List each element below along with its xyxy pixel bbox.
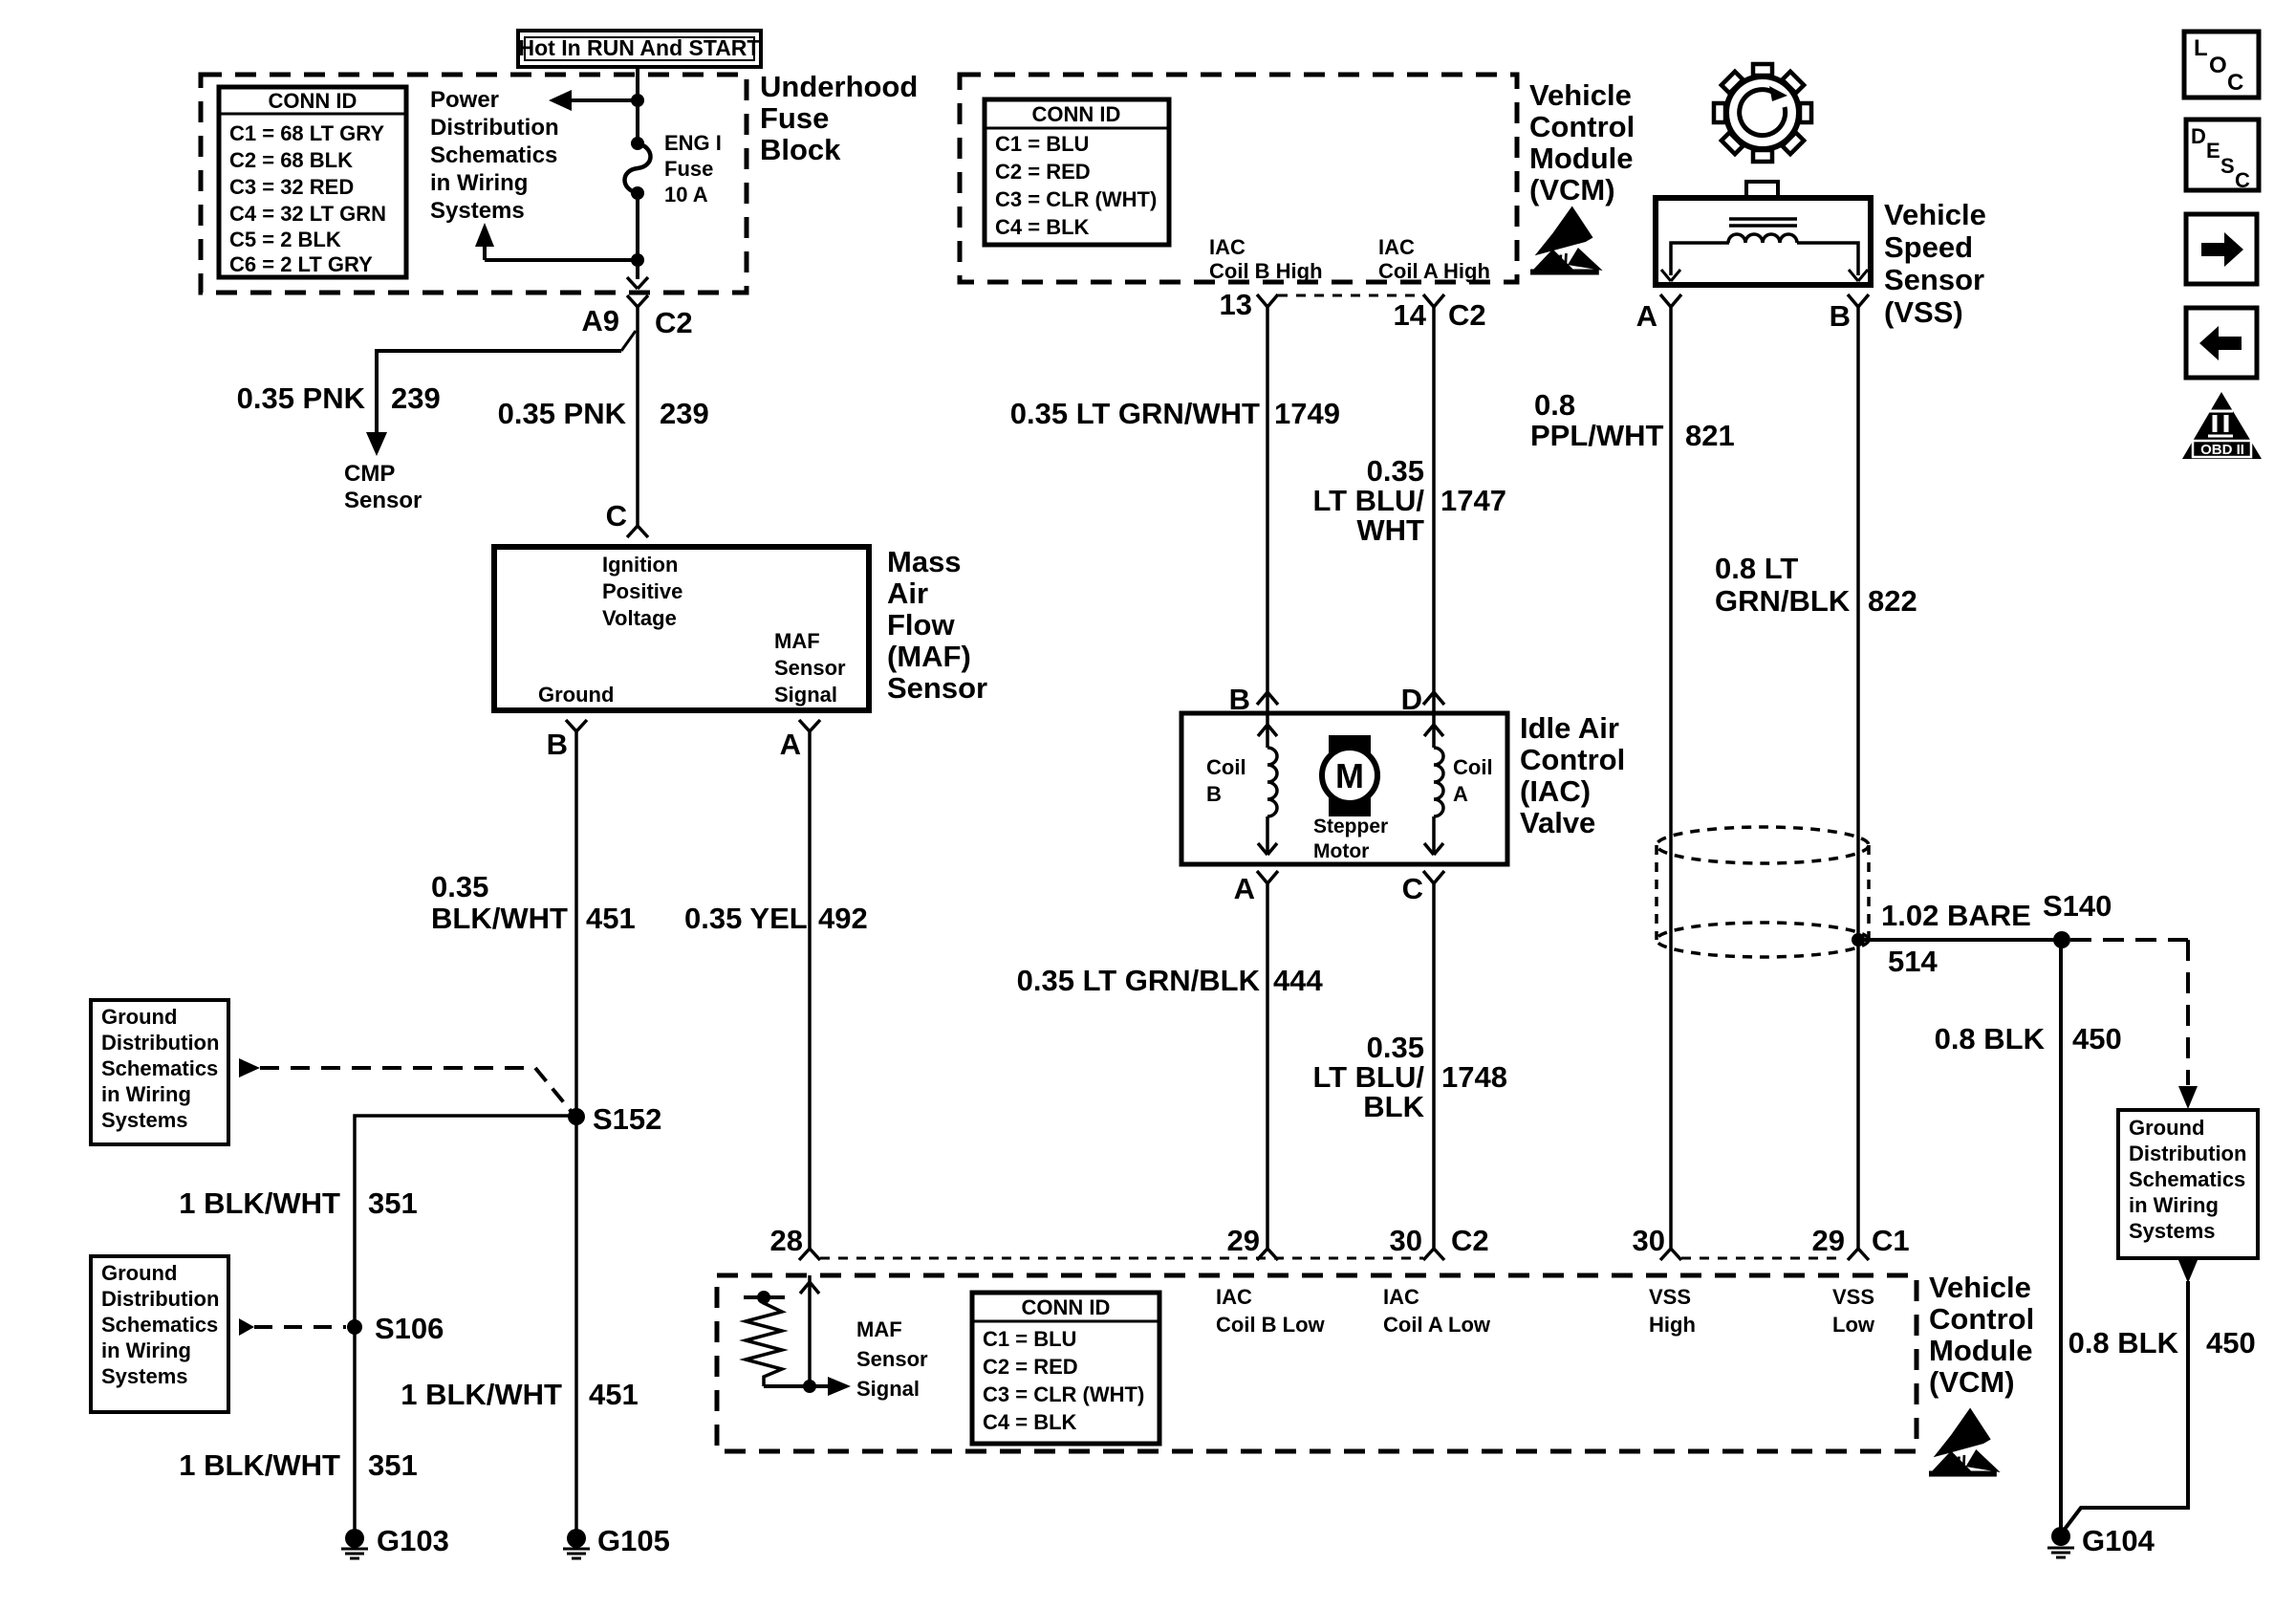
svg-text:Distribution: Distribution: [101, 1287, 219, 1311]
wire from dist box to G104: [2063, 1260, 2198, 1532]
svg-text:Control: Control: [1929, 1302, 2034, 1336]
wire VSS B to 29: [1856, 307, 1860, 1249]
wire C2 to MAF: [636, 307, 639, 526]
svg-text:(VCM): (VCM): [1529, 173, 1615, 207]
svg-text:L: L: [2194, 35, 2208, 61]
node junction top: [631, 94, 644, 107]
connector dashed line C2 bottom: [820, 1257, 1423, 1260]
pin A9/C2 connector: [581, 295, 692, 339]
wire fuse to connector: [636, 193, 639, 279]
svg-text:0.35: 0.35: [1367, 1031, 1424, 1064]
svg-text:PPL/WHT: PPL/WHT: [1530, 419, 1664, 452]
wire S152 branch: [355, 1116, 576, 1530]
pin 30 IAC C: [1390, 1224, 1489, 1260]
svg-text:Ground: Ground: [2129, 1116, 2204, 1140]
svg-text:Sensor: Sensor: [856, 1347, 928, 1371]
svg-text:A9: A9: [581, 304, 619, 337]
pin B of VSS: [1830, 294, 1869, 333]
pin B of MAF: [547, 720, 587, 761]
svg-text:B: B: [1206, 782, 1222, 806]
svg-text:Voltage: Voltage: [602, 606, 677, 630]
Mass Air Flow (MAF) Sensor label: [887, 545, 987, 705]
svg-text:IAC: IAC: [1383, 1285, 1419, 1309]
bare wire junction: [1852, 933, 1865, 946]
wire A signal 492: [808, 731, 812, 1249]
svg-text:B: B: [547, 728, 568, 761]
svg-text:1749: 1749: [1274, 397, 1340, 430]
wire label 0.35 PNK 239 (branch): [237, 381, 441, 415]
svg-text:C: C: [606, 499, 627, 533]
svg-text:(VCM): (VCM): [1929, 1365, 2015, 1399]
pin 29 VSS low: [1812, 1224, 1910, 1260]
CMP Sensor label: [344, 461, 422, 513]
svg-text:Air: Air: [887, 577, 928, 610]
svg-text:Vehicle: Vehicle: [1884, 198, 1986, 231]
svg-text:C4 = 32 LT GRN: C4 = 32 LT GRN: [229, 202, 386, 226]
CONN ID table (VCM top): [985, 99, 1169, 245]
svg-text:Speed: Speed: [1884, 230, 1973, 264]
wire label 0.35 PNK 239 (main): [498, 397, 709, 430]
svg-text:Schematics: Schematics: [101, 1313, 218, 1337]
svg-text:450: 450: [2072, 1022, 2122, 1055]
arrow up from bus: [475, 223, 638, 260]
svg-text:LT BLU/: LT BLU/: [1312, 484, 1424, 517]
svg-text:(VSS): (VSS): [1884, 295, 1963, 329]
svg-text:351: 351: [368, 1448, 418, 1482]
svg-text:0.35: 0.35: [431, 870, 488, 903]
svg-text:0.35: 0.35: [1367, 454, 1424, 488]
svg-text:Module: Module: [1529, 141, 1634, 175]
svg-text:Vehicle: Vehicle: [1529, 78, 1632, 112]
svg-text:351: 351: [368, 1186, 418, 1220]
wire 1.02 BARE to S140: [1858, 938, 2062, 942]
pin 29 IAC B: [1227, 1224, 1278, 1260]
svg-text:822: 822: [1868, 584, 1917, 618]
wire IAC A to 29: [1266, 883, 1269, 1249]
svg-text:Low: Low: [1832, 1313, 1875, 1337]
pin label VSS Low: [1832, 1285, 1875, 1337]
svg-text:Ground: Ground: [538, 683, 614, 707]
svg-text:Distribution: Distribution: [2129, 1142, 2246, 1165]
svg-text:444: 444: [1273, 964, 1323, 997]
DESC icon: [2186, 120, 2259, 192]
svg-text:0.8 BLK: 0.8 BLK: [1935, 1022, 2046, 1055]
IAC coil A leg: [1424, 307, 1443, 855]
pin label IAC Coil B High: [1209, 235, 1323, 283]
CONN ID table (fuse block): [219, 87, 406, 277]
OBD II icon: [2182, 392, 2262, 459]
svg-text:VSS: VSS: [1649, 1285, 1691, 1309]
svg-text:Fuse: Fuse: [760, 101, 829, 135]
svg-text:450: 450: [2206, 1326, 2256, 1360]
wire label 0.35 LT BLU/BLK 1748: [1312, 1031, 1506, 1123]
svg-text:C2: C2: [1451, 1224, 1489, 1257]
svg-text:0.35 PNK: 0.35 PNK: [498, 397, 627, 430]
svg-text:B: B: [1830, 299, 1851, 333]
svg-text:Control: Control: [1529, 110, 1635, 143]
svg-text:CMP: CMP: [344, 461, 395, 487]
svg-text:Signal: Signal: [774, 683, 837, 707]
svg-text:C: C: [2227, 70, 2243, 96]
pin label IAC Coil A Low: [1383, 1285, 1491, 1337]
VSS pickup core lines: [1729, 217, 1797, 221]
svg-text:C5 = 2 BLK: C5 = 2 BLK: [229, 228, 341, 251]
svg-text:1748: 1748: [1441, 1060, 1507, 1094]
Ground Distribution box 3: [2118, 1110, 2258, 1258]
wire label 0.35 LT BLU/WHT 1747: [1312, 454, 1505, 547]
MAF Sensor Signal label: [774, 629, 846, 707]
node S152: [568, 1102, 661, 1136]
svg-text:C1 = 68 LT GRY: C1 = 68 LT GRY: [229, 121, 384, 145]
dashed wire S140 to ground dist box: [2070, 940, 2198, 1109]
svg-text:Coil A High: Coil A High: [1378, 259, 1490, 283]
svg-text:C6 = 2 LT GRY: C6 = 2 LT GRY: [229, 252, 373, 276]
wire label 1 BLK/WHT 351 upper: [179, 1186, 418, 1220]
wire label 0.8 BLK 450 lower: [2069, 1326, 2256, 1360]
wire label 0.8 BLK 450 upper: [1935, 1022, 2122, 1055]
svg-text:1 BLK/WHT: 1 BLK/WHT: [179, 1186, 340, 1220]
svg-text:Hot In RUN And START: Hot In RUN And START: [519, 35, 761, 60]
pin C of MAF: [606, 499, 648, 537]
ESD symbol bottom: [1929, 1408, 2001, 1477]
svg-text:Motor: Motor: [1313, 840, 1369, 862]
IAC coil B leg: [1258, 307, 1277, 855]
svg-text:C: C: [1402, 872, 1423, 905]
svg-text:O: O: [2209, 53, 2227, 78]
svg-text:CONN ID: CONN ID: [1032, 102, 1121, 126]
svg-text:Control: Control: [1520, 743, 1625, 776]
svg-text:Sensor: Sensor: [344, 488, 422, 513]
svg-text:Systems: Systems: [101, 1364, 188, 1388]
wire 0.8 BLK 450 main: [2059, 946, 2063, 1530]
svg-text:821: 821: [1685, 419, 1735, 452]
svg-text:1.02 BARE: 1.02 BARE: [1881, 899, 2031, 932]
svg-text:C3 = CLR (WHT): C3 = CLR (WHT): [983, 1382, 1144, 1406]
branch diagonal to CMP: [621, 331, 636, 351]
wire 28 internal with resistor: [744, 1275, 851, 1396]
pin 30 VSS high: [1633, 1224, 1681, 1260]
svg-text:C3 = CLR (WHT): C3 = CLR (WHT): [995, 187, 1157, 211]
svg-text:G104: G104: [2082, 1524, 2155, 1557]
svg-text:A: A: [1234, 872, 1255, 905]
svg-text:14: 14: [1394, 298, 1427, 332]
VSS mount tab: [1746, 182, 1778, 198]
svg-text:S140: S140: [2043, 889, 2112, 923]
wire label 0.35 YEL 492: [684, 902, 868, 935]
svg-text:Sensor: Sensor: [774, 656, 846, 680]
svg-text:29: 29: [1227, 1224, 1260, 1257]
svg-text:Coil: Coil: [1453, 755, 1493, 779]
fuse ENG I 10A: [625, 137, 651, 200]
Vehicle Control Module (VCM) label top: [1529, 78, 1635, 207]
arrow right icon: [2186, 214, 2257, 284]
svg-text:0.35 YEL: 0.35 YEL: [684, 902, 808, 935]
pin B of IAC: [1229, 683, 1278, 716]
svg-text:Stepper: Stepper: [1313, 816, 1388, 838]
shield cylinder dashed: [1657, 827, 1869, 957]
pin C of IAC: [1402, 871, 1444, 905]
svg-text:S152: S152: [593, 1102, 661, 1136]
Power Distribution Schematics in Wiring Systems note: [430, 87, 559, 224]
Coil A label: [1453, 755, 1493, 806]
svg-text:10 A: 10 A: [664, 183, 708, 207]
svg-text:Signal: Signal: [856, 1377, 920, 1401]
svg-text:C4 = BLK: C4 = BLK: [983, 1410, 1077, 1434]
svg-text:13: 13: [1220, 288, 1252, 321]
svg-text:D: D: [2191, 124, 2206, 148]
VSS coil: [1661, 234, 1868, 281]
svg-text:Systems: Systems: [101, 1108, 188, 1132]
wire label 0.35 BLK/WHT 451: [431, 870, 636, 935]
svg-text:514: 514: [1888, 945, 1938, 978]
wire label 1 BLK/WHT 451: [401, 1378, 639, 1411]
dashed link to S106: [239, 1318, 346, 1336]
pin A of VSS: [1636, 294, 1681, 333]
stepper motor M: [1322, 735, 1377, 816]
svg-text:451: 451: [586, 902, 636, 935]
svg-text:MAF: MAF: [856, 1317, 902, 1341]
svg-text:0.8 LT: 0.8 LT: [1715, 552, 1798, 585]
wire label 1 BLK/WHT 351 lower: [179, 1448, 418, 1482]
svg-text:High: High: [1649, 1313, 1696, 1337]
svg-text:in Wiring: in Wiring: [2129, 1193, 2219, 1217]
svg-text:A: A: [1636, 299, 1657, 333]
svg-text:IAC: IAC: [1378, 235, 1415, 259]
MAF Sensor Signal label bottom: [856, 1317, 928, 1401]
pin 28: [770, 1224, 820, 1260]
svg-text:C2 = RED: C2 = RED: [995, 160, 1091, 184]
svg-text:C4 = BLK: C4 = BLK: [995, 215, 1090, 239]
svg-text:S106: S106: [375, 1312, 444, 1345]
svg-text:Valve: Valve: [1520, 806, 1595, 839]
Idle Air Control (IAC) Valve label: [1520, 711, 1625, 839]
CONN ID table (VCM bottom): [972, 1293, 1159, 1444]
svg-text:Module: Module: [1929, 1334, 2033, 1367]
svg-text:451: 451: [589, 1378, 639, 1411]
svg-text:Coil A Low: Coil A Low: [1383, 1313, 1491, 1337]
pin label VSS High: [1649, 1285, 1696, 1337]
svg-text:Schematics: Schematics: [101, 1056, 218, 1080]
VCM top dashed box: [960, 75, 1517, 282]
svg-text:E: E: [2206, 139, 2220, 163]
svg-text:G105: G105: [597, 1524, 670, 1557]
node S140: [2043, 889, 2112, 948]
svg-text:M: M: [1335, 756, 1364, 795]
svg-text:Sensor: Sensor: [1884, 263, 1984, 296]
pin A of MAF: [780, 720, 820, 761]
svg-text:1747: 1747: [1440, 484, 1506, 517]
svg-text:492: 492: [818, 902, 868, 935]
dashed link to S152: [239, 1058, 572, 1112]
pin 13: [1220, 288, 1278, 321]
ESD symbol top: [1530, 207, 1603, 275]
svg-text:0.35 PNK: 0.35 PNK: [237, 381, 366, 415]
Ground Distribution box 1: [91, 1000, 228, 1144]
svg-text:ENG I: ENG I: [664, 131, 722, 155]
svg-text:MAF: MAF: [774, 629, 820, 653]
pin D of IAC: [1401, 683, 1444, 716]
svg-text:C2 = RED: C2 = RED: [983, 1355, 1078, 1379]
svg-text:1 BLK/WHT: 1 BLK/WHT: [179, 1448, 340, 1482]
pin 14: [1394, 294, 1486, 332]
connector dashed line C1 bottom: [1681, 1257, 1841, 1260]
Coil B label: [1206, 755, 1246, 806]
svg-text:IAC: IAC: [1216, 1285, 1252, 1309]
ground G104: [2047, 1524, 2155, 1557]
wire label 0.35 LT GRN/WHT 1749: [1010, 397, 1340, 430]
svg-text:IAC: IAC: [1209, 235, 1245, 259]
Vehicle Speed Sensor box: [1656, 198, 1871, 285]
svg-text:in Wiring: in Wiring: [101, 1082, 191, 1106]
svg-text:Schematics: Schematics: [430, 142, 557, 168]
svg-text:Distribution: Distribution: [101, 1031, 219, 1055]
svg-text:30: 30: [1633, 1224, 1665, 1257]
svg-text:Systems: Systems: [2129, 1219, 2216, 1243]
Idle Air Control valve box: [1181, 713, 1507, 864]
svg-text:0.35 LT GRN/BLK: 0.35 LT GRN/BLK: [1017, 964, 1261, 997]
svg-text:1 BLK/WHT: 1 BLK/WHT: [401, 1378, 562, 1411]
wire IAC C to 30: [1432, 883, 1436, 1249]
arrow left to power distribution: [549, 90, 638, 111]
svg-text:Underhood: Underhood: [760, 70, 918, 103]
Underhood Fuse Block dashed box: [201, 75, 747, 293]
svg-text:C2: C2: [1448, 298, 1486, 332]
svg-text:0.8 BLK: 0.8 BLK: [2069, 1326, 2179, 1360]
svg-text:28: 28: [770, 1224, 803, 1257]
svg-text:Idle Air: Idle Air: [1520, 711, 1619, 745]
wire label 0.35 LT GRN/BLK 444: [1017, 964, 1324, 997]
svg-text:30: 30: [1390, 1224, 1422, 1257]
wire VSS A to 30: [1669, 307, 1673, 1249]
svg-text:C1 = BLU: C1 = BLU: [995, 132, 1089, 156]
svg-text:Coil: Coil: [1206, 755, 1246, 779]
svg-text:29: 29: [1812, 1224, 1845, 1257]
gear icon: [1714, 64, 1811, 162]
svg-text:GRN/BLK: GRN/BLK: [1715, 584, 1851, 618]
svg-text:C2 = 68 BLK: C2 = 68 BLK: [229, 148, 353, 172]
svg-text:239: 239: [660, 397, 709, 430]
svg-text:BLK/WHT: BLK/WHT: [431, 902, 568, 935]
svg-text:Mass: Mass: [887, 545, 962, 578]
arrow down into box edge: [627, 277, 648, 289]
svg-text:Positive: Positive: [602, 579, 682, 603]
svg-text:C2: C2: [655, 306, 693, 339]
wire label 1.02 BARE 514: [1881, 899, 2031, 978]
svg-text:OBD II: OBD II: [2200, 442, 2244, 458]
svg-text:0.8: 0.8: [1534, 388, 1575, 422]
arrow left icon: [2186, 308, 2257, 378]
svg-text:S: S: [2220, 154, 2235, 178]
svg-text:BLK: BLK: [1363, 1090, 1424, 1123]
pin label IAC Coil A High: [1378, 235, 1490, 283]
svg-text:0.35 LT GRN/WHT: 0.35 LT GRN/WHT: [1010, 397, 1260, 430]
Underhood Fuse Block label: [760, 70, 918, 166]
wire label 0.8 LT GRN/BLK 822: [1715, 552, 1917, 618]
svg-text:Power: Power: [430, 87, 499, 113]
wire label 0.8 PPL/WHT 821: [1530, 388, 1735, 452]
svg-text:Flow: Flow: [887, 608, 955, 642]
ground G103: [341, 1524, 449, 1558]
svg-text:VSS: VSS: [1832, 1285, 1874, 1309]
Vehicle Control Module (VCM) label bottom: [1929, 1271, 2034, 1399]
svg-text:Vehicle: Vehicle: [1929, 1271, 2031, 1304]
LOC icon: [2184, 32, 2259, 98]
svg-text:Systems: Systems: [430, 198, 525, 224]
svg-text:A: A: [1453, 782, 1468, 806]
Mass Air Flow MAF Sensor box: [494, 547, 869, 710]
svg-text:Sensor: Sensor: [887, 671, 987, 705]
svg-text:239: 239: [391, 381, 441, 415]
Stepper Motor label: [1313, 816, 1388, 862]
wire hot feed: [636, 65, 639, 143]
connector C2 dashed line: [1278, 294, 1423, 297]
node S106: [347, 1312, 444, 1345]
svg-text:C1: C1: [1872, 1224, 1910, 1257]
pin A of IAC: [1234, 871, 1278, 905]
pin label IAC Coil B Low: [1216, 1285, 1326, 1337]
svg-text:Fuse: Fuse: [664, 157, 713, 181]
resistor: [746, 1297, 782, 1386]
svg-text:LT BLU/: LT BLU/: [1312, 1060, 1424, 1094]
svg-text:A: A: [780, 728, 801, 761]
svg-text:G103: G103: [377, 1524, 449, 1557]
ground G105: [563, 1524, 670, 1558]
svg-text:Ground: Ground: [101, 1261, 177, 1285]
svg-text:(IAC): (IAC): [1520, 774, 1591, 808]
svg-text:in Wiring: in Wiring: [101, 1338, 191, 1362]
svg-text:Coil B High: Coil B High: [1209, 259, 1323, 283]
svg-text:Ignition: Ignition: [602, 553, 678, 577]
svg-text:Schematics: Schematics: [2129, 1167, 2245, 1191]
svg-text:C: C: [2235, 168, 2250, 192]
svg-text:Block: Block: [760, 133, 841, 166]
svg-text:CONN ID: CONN ID: [1022, 1295, 1111, 1319]
svg-text:in Wiring: in Wiring: [430, 170, 528, 196]
Vehicle Speed Sensor (VSS) label: [1884, 198, 1986, 329]
svg-text:(MAF): (MAF): [887, 640, 971, 673]
svg-text:CONN ID: CONN ID: [269, 89, 357, 113]
svg-text:Ground: Ground: [101, 1005, 177, 1029]
svg-text:C3 = 32 RED: C3 = 32 RED: [229, 175, 354, 199]
VCM bottom dashed box: [717, 1275, 1917, 1451]
svg-text:WHT: WHT: [1356, 513, 1424, 547]
Ground Distribution box 2: [91, 1256, 228, 1412]
svg-text:C1 = BLU: C1 = BLU: [983, 1327, 1076, 1351]
wire branch to CMP sensor: [366, 351, 621, 456]
svg-text:Coil B Low: Coil B Low: [1216, 1313, 1326, 1337]
svg-text:Distribution: Distribution: [430, 115, 559, 141]
Hot In RUN And START title box: [518, 31, 761, 67]
wire B ground 451: [574, 731, 578, 1530]
